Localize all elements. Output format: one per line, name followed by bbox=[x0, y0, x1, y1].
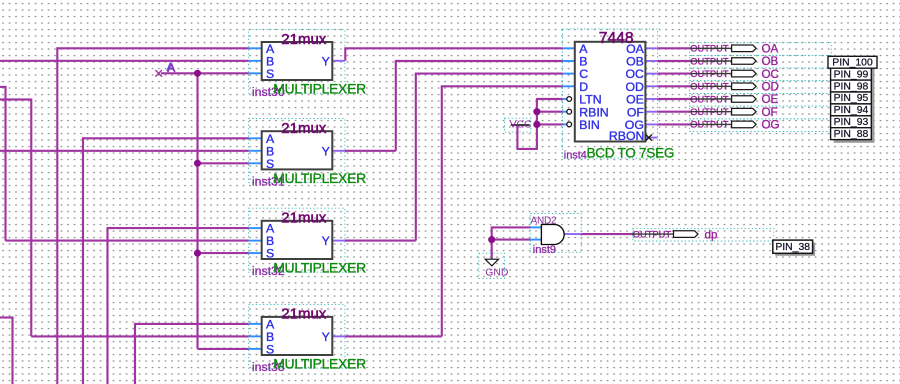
selection box output pin row 3 bbox=[690, 68, 832, 81]
and gate input stub 1 bbox=[530, 226, 541, 228]
pin S input stub bbox=[249, 72, 262, 74]
wire: mux2 Y horizontal bbox=[345, 150, 396, 152]
selection box output pin row 1 bbox=[690, 43, 832, 56]
svg-text:PIN_98: PIN_98 bbox=[834, 81, 869, 92]
pin A input stub bbox=[249, 227, 262, 229]
wire: left edge stub y=86.9 bbox=[0, 86, 6, 88]
pin OA output stub bbox=[645, 47, 657, 49]
wire: 7448 output row 4 to output symbol bbox=[658, 85, 691, 87]
wire: mux4 Y riser bbox=[441, 86, 443, 336]
pin B input stub bbox=[249, 60, 262, 62]
wire: left edge stub y=317.5 bbox=[0, 316, 13, 318]
pin C input stub bbox=[563, 73, 575, 75]
svg-text:AND2: AND2 bbox=[531, 216, 558, 227]
svg-text:Y: Y bbox=[322, 144, 330, 158]
wire: 7448 output row 3 to output symbol bbox=[658, 73, 691, 75]
pin location box PIN_38 bbox=[773, 240, 815, 256]
pin S input stub bbox=[249, 162, 262, 164]
inversion bubble pin BIN bbox=[567, 122, 572, 127]
output pin dp bbox=[632, 228, 717, 241]
power symbol VCC bbox=[510, 119, 532, 130]
selection box 7448 inst4 bbox=[563, 29, 658, 158]
wire: select to mux4 S bbox=[198, 348, 249, 350]
wire: VCC net bottom horizontal bbox=[517, 148, 538, 150]
mux body box bbox=[262, 131, 333, 169]
output pin OA bbox=[690, 43, 778, 56]
output pin OE bbox=[690, 93, 778, 106]
pin location box PIN_88 bbox=[831, 128, 872, 140]
svg-text:MULTIPLEXER: MULTIPLEXER bbox=[273, 81, 366, 97]
ground symbol GND bbox=[485, 259, 508, 279]
wire: VCC symbol drop bbox=[516, 126, 518, 150]
svg-text:S: S bbox=[266, 343, 274, 357]
svg-text:S: S bbox=[266, 67, 274, 81]
wire: VCC net vertical x=536.9 bbox=[536, 98, 538, 149]
svg-text:OB: OB bbox=[762, 55, 779, 68]
wire: AND net vertical bbox=[491, 226, 493, 258]
svg-text:BIN: BIN bbox=[579, 118, 600, 132]
mux body box bbox=[262, 42, 333, 80]
pin B input stub bbox=[249, 335, 262, 337]
pin location box PIN_100 bbox=[828, 56, 877, 68]
svg-text:21mux: 21mux bbox=[281, 306, 327, 323]
svg-text:GND: GND bbox=[485, 268, 508, 279]
pin assignment stack shadow bbox=[834, 59, 875, 142]
pin OD output stub bbox=[645, 85, 657, 87]
svg-text:inst4: inst4 bbox=[564, 150, 587, 162]
output pin OC bbox=[690, 68, 779, 81]
wire: mux2 Y to 7448 B bbox=[395, 60, 563, 62]
wire: 7448 output row 2 to output symbol bbox=[658, 60, 691, 62]
pin OC output stub bbox=[645, 73, 657, 75]
and gate output stub bbox=[564, 233, 581, 235]
svg-text:Y: Y bbox=[322, 330, 330, 344]
svg-text:BCD TO 7SEG: BCD TO 7SEG bbox=[587, 145, 675, 160]
and gate input stub 2 bbox=[530, 239, 541, 241]
svg-text:MULTIPLEXER: MULTIPLEXER bbox=[273, 356, 366, 372]
wire: 7448 output row 1 to output symbol bbox=[658, 47, 691, 49]
wire: vertical x=5.5 bbox=[4, 86, 6, 241]
wire: mux1 Y riser bbox=[344, 48, 346, 61]
svg-text:21mux: 21mux bbox=[281, 210, 327, 227]
pin OG output stub bbox=[645, 123, 657, 125]
output pin OD bbox=[690, 81, 779, 94]
svg-text:PIN_38: PIN_38 bbox=[775, 242, 810, 253]
pin RBIN input stub bbox=[563, 111, 567, 113]
svg-text:MULTIPLEXER: MULTIPLEXER bbox=[273, 170, 366, 186]
pin A input stub bbox=[563, 47, 575, 49]
selection box mux inst30 bbox=[249, 30, 345, 94]
pin B input stub bbox=[249, 240, 262, 242]
selection box VCC bbox=[505, 118, 531, 132]
svg-text:PIN_88: PIN_88 bbox=[834, 129, 869, 140]
wire: vertical x=135 bbox=[134, 323, 136, 384]
wire: VCC net to RBIN bbox=[537, 111, 563, 113]
wire: mux4 Y to 7448 D bbox=[441, 85, 563, 87]
output pin OB bbox=[690, 55, 778, 68]
wire: select net vertical x=197.5 bbox=[196, 73, 198, 349]
junction dot AND inputs bbox=[488, 236, 495, 243]
wire: select to mux3 S bbox=[198, 252, 249, 254]
pin B input stub bbox=[249, 150, 262, 152]
wire: left edge stub y=99.5 bbox=[0, 98, 31, 100]
svg-text:21mux: 21mux bbox=[281, 120, 327, 137]
pin Y output stub bbox=[332, 60, 345, 62]
wire: mux3 Y to 7448 C bbox=[415, 73, 563, 75]
pin LTN input stub bbox=[563, 98, 567, 100]
pin OF output stub bbox=[645, 111, 657, 113]
svg-text:inst9: inst9 bbox=[533, 244, 556, 256]
wire: vertical x=12.5 bbox=[11, 317, 13, 384]
svg-text:MULTIPLEXER: MULTIPLEXER bbox=[273, 260, 366, 276]
svg-text:OD: OD bbox=[762, 81, 779, 94]
mux body box bbox=[262, 317, 333, 355]
wire: mux2 Y riser bbox=[395, 61, 397, 151]
pin location box PIN_95 bbox=[831, 92, 872, 104]
inversion bubble pin LTN bbox=[567, 97, 572, 102]
wire: mux4 Y horizontal bbox=[345, 335, 442, 337]
svg-text:21mux: 21mux bbox=[281, 31, 327, 48]
wire: net to mux1 A (horizontal) bbox=[57, 47, 248, 49]
selection box mux inst32 bbox=[249, 208, 345, 272]
svg-text:S: S bbox=[266, 247, 274, 261]
BCD to 7seg decoder U5 (inst4) 7448 bbox=[563, 30, 675, 162]
selection box output pin row 5 bbox=[690, 93, 832, 106]
svg-text:OA: OA bbox=[762, 43, 779, 56]
pin location box PIN_93 bbox=[831, 116, 872, 128]
pin B input stub bbox=[563, 60, 575, 62]
multiplexer U1 (inst30) 21mux bbox=[249, 31, 366, 99]
pin OE output stub bbox=[645, 98, 657, 100]
wire: select to mux2 S bbox=[198, 162, 249, 164]
pin location box PIN_98 bbox=[831, 80, 872, 92]
svg-text:Y: Y bbox=[322, 54, 330, 68]
pin Y output stub bbox=[332, 240, 345, 242]
wire: AND2 top input bbox=[492, 226, 531, 228]
pin RBON output stub bbox=[645, 137, 657, 139]
wire: net to mux1 B from left edge bbox=[0, 60, 249, 62]
7448 body box bbox=[575, 42, 646, 142]
svg-text:A: A bbox=[167, 61, 176, 75]
and gate body bbox=[541, 224, 564, 244]
and gate U6 (inst9) AND2 bbox=[530, 216, 581, 256]
wire: vertical x=83 bbox=[82, 137, 84, 384]
svg-text:dp: dp bbox=[705, 228, 718, 241]
selection box mux inst33 bbox=[249, 304, 345, 368]
multiplexer U4 (inst33) 21mux bbox=[249, 306, 366, 374]
pin S input stub bbox=[249, 252, 262, 254]
wire: to mux4 A bbox=[135, 323, 249, 325]
svg-text:VCC: VCC bbox=[510, 119, 532, 130]
wire: to mux3 A bbox=[108, 227, 249, 229]
svg-text:OE: OE bbox=[762, 93, 779, 106]
junction dot VCC/BIN bbox=[533, 121, 540, 128]
selection box output pin row 6 bbox=[690, 106, 832, 119]
wire: dp output to symbol bbox=[581, 233, 633, 235]
junction dot select/mux2 S bbox=[194, 160, 201, 167]
wire: vertical x=31.25 bbox=[30, 99, 32, 337]
pin S input stub bbox=[249, 348, 262, 350]
pin Y output stub bbox=[332, 335, 345, 337]
svg-text:OF: OF bbox=[762, 106, 778, 119]
multiplexer U3 (inst32) 21mux bbox=[249, 210, 366, 278]
pin A input stub bbox=[249, 47, 262, 49]
svg-text:PIN_93: PIN_93 bbox=[834, 117, 869, 128]
selection box mux inst31 bbox=[249, 119, 345, 183]
svg-text:PIN_100: PIN_100 bbox=[832, 57, 873, 68]
svg-text:PIN_95: PIN_95 bbox=[834, 93, 869, 104]
junction dot select/mux1 S bbox=[194, 70, 201, 77]
mux body box bbox=[262, 221, 333, 259]
selection box output pin row 7 bbox=[690, 119, 832, 132]
svg-text:OG: OG bbox=[762, 119, 780, 132]
wire: 7448 output row 6 to output symbol bbox=[658, 111, 691, 113]
wire: vertical bus line x=57.3 bbox=[56, 47, 58, 384]
pin D input stub bbox=[563, 85, 575, 87]
wire: to mux4 B bbox=[31, 335, 248, 337]
svg-text:S: S bbox=[266, 157, 274, 171]
inversion bubble pin RBIN bbox=[567, 109, 572, 114]
wire: to mux2 B from left edge bbox=[0, 150, 249, 152]
wire: to mux3 B bbox=[6, 240, 249, 242]
pin A input stub bbox=[249, 323, 262, 325]
wire: mux1 Y to 7448 A bbox=[344, 47, 562, 49]
selection box AND2 inst9 bbox=[530, 214, 581, 253]
pin BIN input stub bbox=[563, 123, 567, 125]
node A open-end x mark bbox=[155, 70, 162, 77]
multiplexer U2 (inst31) 21mux bbox=[249, 120, 366, 188]
wire: 7448 output row 7 to output symbol bbox=[658, 123, 691, 125]
wire: to mux2 A bbox=[83, 137, 249, 139]
wire: 7448 output row 5 to output symbol bbox=[658, 98, 691, 100]
pin OB output stub bbox=[645, 60, 657, 62]
wire: node A horizontal to mux1 S bbox=[161, 72, 249, 74]
selection box output dp bbox=[633, 228, 774, 241]
wire: mux3 Y horizontal bbox=[345, 240, 416, 242]
wire: VCC net to LTN bbox=[537, 98, 563, 100]
junction dot select/mux3 S bbox=[194, 250, 201, 257]
junction dot VCC/RBIN bbox=[533, 108, 540, 115]
selection box output pin row 2 bbox=[690, 55, 832, 68]
pin Y output stub bbox=[332, 150, 345, 152]
selection box GND bbox=[479, 253, 505, 278]
output pin OG bbox=[690, 119, 779, 132]
svg-text:OC: OC bbox=[762, 68, 779, 81]
svg-text:RBON: RBON bbox=[609, 129, 645, 143]
pin location box PIN_94 bbox=[831, 104, 872, 116]
pin location box PIN_99 bbox=[831, 68, 872, 80]
wire: vertical x=107.5 bbox=[106, 227, 108, 384]
wire: AND2 bottom input bbox=[492, 239, 531, 241]
svg-text:PIN_94: PIN_94 bbox=[834, 105, 869, 116]
wire: mux3 Y riser bbox=[415, 74, 417, 241]
svg-text:PIN_99: PIN_99 bbox=[834, 69, 869, 80]
pin A input stub bbox=[249, 137, 262, 139]
selection box output pin row 4 bbox=[690, 81, 832, 94]
output pin OF bbox=[690, 106, 777, 119]
RBON no-connect x mark bbox=[646, 135, 652, 141]
svg-text:Y: Y bbox=[322, 234, 330, 248]
wire: VCC net to BIN bbox=[537, 123, 563, 125]
